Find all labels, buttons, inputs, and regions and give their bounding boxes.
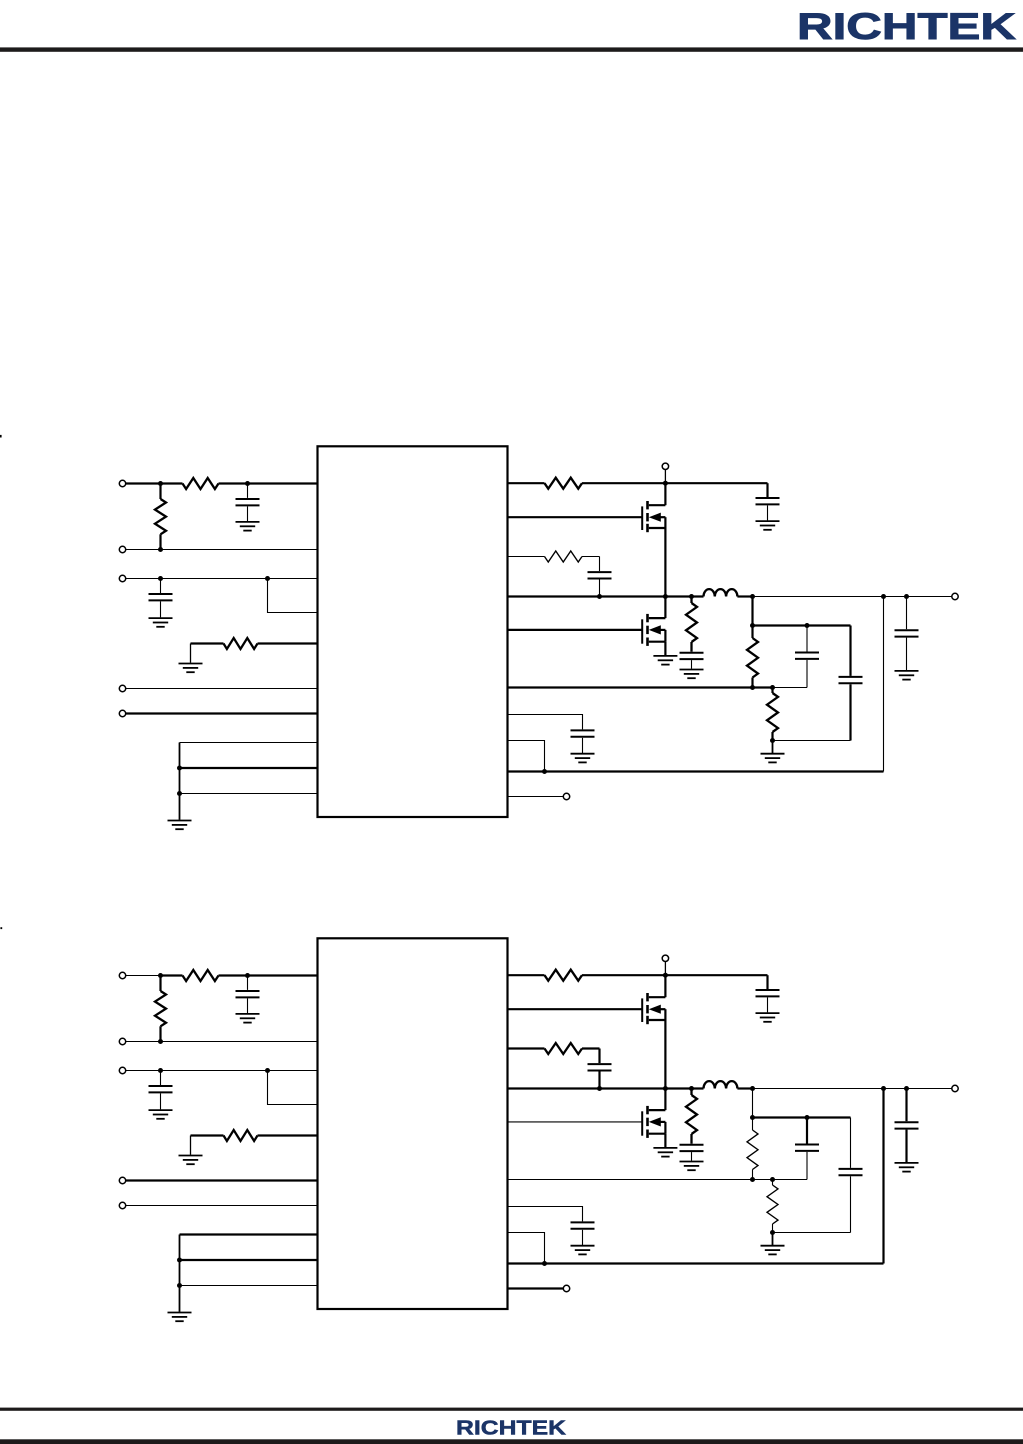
wire IC pin to sense line — [508, 1233, 545, 1264]
inductor L21 — [704, 1081, 738, 1088]
resistor R12 divider lower — [159, 484, 161, 500]
wire Q1A source to SW node — [664, 528, 666, 597]
wire Q1B drain vertical — [664, 597, 666, 619]
capacitor C14 bootstrap — [588, 572, 612, 578]
capacitor C28 output — [895, 1122, 919, 1128]
wire BOOT pin via resistor R25 — [508, 1047, 545, 1049]
wire terminal 3 to IC pin — [126, 1070, 318, 1072]
transistor Q2B low-side N-MOSFET — [642, 1106, 665, 1138]
capacitor C19 soft-start — [571, 730, 595, 736]
ground below R13 — [179, 664, 203, 673]
capacitor C23 input bulk — [756, 990, 780, 996]
wire IC pin row C lower left — [180, 793, 318, 795]
wire SW node from IC to inductor — [508, 595, 704, 597]
wire VIN2 through input filter resistor — [161, 974, 183, 976]
wire inductor to output node — [737, 595, 752, 597]
wire C21 to ground — [247, 998, 249, 1013]
wire R18 bottom to C17 — [773, 740, 851, 742]
node junction divider-pin2 — [158, 547, 163, 552]
wire VOUT sense vertical — [883, 597, 885, 772]
wire terminal 5 to IC pin — [126, 1205, 318, 1207]
resistor R21 input filter — [183, 970, 219, 981]
wire inductor to output node — [737, 1087, 752, 1089]
wire C25 to ground — [691, 1152, 693, 1161]
ground below C23 — [756, 1013, 780, 1022]
node FB junction R28 — [770, 1177, 775, 1182]
node R18 bottom junction — [770, 738, 775, 743]
ground below C13 — [756, 521, 780, 530]
wire LGATE drive to Q1B — [508, 629, 643, 631]
node junction VIN1-cap — [245, 481, 250, 486]
resistor R14 supply — [545, 478, 583, 489]
wire R28 to ground — [772, 1233, 774, 1246]
ground below C15 — [680, 670, 704, 679]
ground below C12 — [149, 618, 173, 627]
wire to capacitor C12 — [160, 579, 162, 594]
wire rail terminal stub — [664, 470, 666, 484]
wire to capacitor C22 — [160, 1071, 162, 1086]
node VIN1 rail terminal — [662, 463, 668, 469]
wire Q2B source to ground — [664, 1134, 666, 1148]
node junction VIN2-divider — [158, 973, 163, 978]
node junction row B — [177, 1258, 182, 1263]
wire UGATE drive to Q2A — [508, 1008, 643, 1010]
capacitor C13 input bulk — [756, 498, 780, 504]
node terminal 2 circuit 1 — [119, 546, 125, 552]
node terminal 5 circuit 2 — [119, 1202, 125, 1208]
node FB junction R18 — [770, 685, 775, 690]
node VOUT cap junction — [904, 594, 909, 599]
node output junction at inductor — [750, 1086, 755, 1091]
wire C16 to FB line — [806, 660, 808, 688]
wire FB line IC to divider — [508, 1179, 808, 1181]
wire Q1B source to ground — [664, 642, 666, 656]
resistor R18 feedback lower — [771, 688, 773, 694]
resistor R23 to ground — [191, 1134, 224, 1136]
wire C28 to ground — [905, 1130, 907, 1163]
node VOUT1 output terminal — [952, 593, 958, 599]
ground below C21 — [236, 1014, 260, 1023]
ground below C25 — [680, 1162, 704, 1171]
wire branch to IC pin 4 — [268, 579, 318, 613]
wire branch to IC pin 4 — [268, 1071, 318, 1105]
wire PGOOD pin to terminal — [508, 1287, 564, 1289]
wire R13 to ground — [190, 644, 192, 663]
resistor R11 input filter — [183, 478, 219, 489]
ground below C29 — [571, 1246, 595, 1255]
wire R23 to ground — [190, 1136, 192, 1155]
node FB junction R27 — [750, 1177, 755, 1182]
node SW-boot junction — [597, 1086, 602, 1091]
resistor R13 to ground — [191, 642, 224, 644]
ground signal gnd circuit 2 — [168, 1313, 192, 1322]
wire C26 to FB line — [806, 1152, 808, 1180]
wire IC pin row B lower left — [180, 767, 318, 769]
resistor R28 feedback lower — [772, 1180, 774, 1186]
node terminal 3 circuit 1 — [119, 575, 125, 581]
transistor Q1A high-side N-MOSFET — [642, 501, 665, 532]
wire C24 to SW — [598, 1071, 600, 1088]
wire Q1A drain vertical — [664, 483, 666, 505]
node terminal 4 circuit 2 — [119, 1177, 125, 1183]
ground below C28 — [895, 1163, 919, 1172]
node sense line junction — [542, 1261, 547, 1266]
ground below R18 — [761, 754, 785, 763]
op-amp U1 buck controller IC — [318, 446, 508, 817]
wire VOUT sense vertical — [882, 1089, 884, 1264]
wire C29 to ground — [582, 1230, 584, 1245]
wire terminal 2 to IC pin — [126, 1041, 318, 1043]
ground below Q2B — [653, 1148, 677, 1157]
wire rail to capacitor C23 — [766, 975, 768, 989]
wire output node down to divider — [752, 1089, 754, 1118]
node divider top junction — [750, 623, 755, 628]
wire VOUT sense return to IC — [508, 770, 884, 772]
wire C27 down to R28 bottom — [850, 1176, 852, 1232]
node SW-snubber junction — [689, 594, 694, 599]
wire IC pin row B lower left — [180, 1259, 318, 1261]
capacitor C27 compensation — [839, 1169, 863, 1175]
node terminal 4 circuit 1 — [119, 685, 125, 691]
wire divider top rail — [753, 1116, 851, 1118]
node terminal 3 circuit 2 — [119, 1067, 125, 1073]
ground below C18 — [895, 671, 919, 680]
node junction branch pin4 — [265, 576, 270, 581]
capacitor C22 — [149, 1086, 173, 1092]
wire R28 bottom to C27 — [773, 1232, 851, 1234]
wire divider rail to capacitor C27 — [850, 1118, 852, 1168]
wire R18 to ground — [772, 741, 774, 754]
ground below R23 — [179, 1156, 203, 1165]
node R28 bottom junction — [770, 1230, 775, 1235]
wire divider top rail — [753, 624, 851, 626]
wire IC pin to capacitor C19 — [508, 715, 583, 730]
wire IC pin row C lower left — [180, 1285, 318, 1287]
node SW-snubber junction — [689, 1086, 694, 1091]
wire terminal 4 to IC pin — [126, 1179, 318, 1181]
node VIN2 rail terminal — [662, 955, 668, 961]
wire Q2A source to SW node — [664, 1020, 666, 1089]
wire output node to VOUT terminal — [753, 596, 952, 598]
wire Q2B drain vertical — [664, 1089, 666, 1111]
wire BOOT pin via resistor R15 — [508, 556, 545, 558]
resistor R26 snubber — [690, 1089, 692, 1096]
capacitor C17 compensation — [839, 677, 863, 683]
capacitor C11 VCC decoupling — [236, 499, 260, 505]
wire terminal 2 to IC pin — [126, 549, 318, 551]
resistor R17 feedback upper — [751, 626, 753, 639]
capacitor C25 snubber — [680, 1145, 704, 1151]
wire VIN1 through input filter resistor — [161, 482, 183, 484]
wire to boot capacitor C14 — [599, 557, 601, 572]
wire C22 to ground — [160, 1093, 162, 1109]
node junction row C — [177, 1283, 182, 1288]
capacitor C21 VCC decoupling — [236, 991, 260, 997]
node VOUT sense junction — [881, 1086, 886, 1091]
node SW-FET junction — [663, 594, 668, 599]
node VIN1 input terminal — [119, 480, 125, 486]
wire C23 to ground — [767, 997, 769, 1012]
capacitor C12 — [149, 594, 173, 600]
node VOUT sense junction — [881, 594, 886, 599]
node terminal 5 circuit 1 — [119, 710, 125, 716]
ground below Q1B — [653, 656, 677, 665]
wire output node down to divider — [751, 597, 753, 626]
wire C17 down to R18 bottom — [849, 684, 851, 740]
capacitor C26 feedforward — [795, 1145, 819, 1151]
wire rail terminal stub — [664, 962, 666, 976]
transistor Q2A high-side N-MOSFET — [642, 993, 665, 1024]
wire vertical to signal ground — [179, 1235, 181, 1312]
wire vertical to signal ground — [179, 743, 181, 820]
node FB junction R17 — [750, 685, 755, 690]
wire VOUT to capacitor C28 — [905, 1089, 907, 1122]
node junction to C26 — [805, 1115, 810, 1120]
node PGOOD2 terminal — [563, 1285, 569, 1291]
node VOUT2 output terminal — [952, 1085, 958, 1091]
node VOUT cap junction — [904, 1086, 909, 1091]
wire IC pin to capacitor C29 — [508, 1207, 583, 1222]
ground below C11 — [236, 522, 260, 531]
resistor R27 feedback upper — [752, 1118, 754, 1131]
wire terminal 4 to IC pin — [126, 688, 318, 690]
node junction cap C12 — [158, 576, 163, 581]
node divider top junction — [750, 1115, 755, 1120]
wire IC pin row A lower left — [180, 1233, 318, 1235]
node output junction at inductor — [750, 594, 755, 599]
capacitor C29 soft-start — [571, 1222, 595, 1228]
resistor R16 snubber — [690, 597, 692, 604]
wire C15 to ground — [691, 660, 693, 669]
node sense line junction — [542, 769, 547, 774]
wire C12 to ground — [160, 601, 162, 617]
wire C13 to ground — [767, 505, 769, 520]
wire VIN2 terminal to divider tap — [126, 975, 161, 977]
wire FB line IC to divider — [508, 686, 773, 688]
wire Q2A drain vertical — [664, 975, 666, 997]
op-amp U2 buck controller IC — [318, 938, 508, 1309]
wire LGATE drive to Q2B — [508, 1121, 643, 1123]
node junction VIN1-divider — [158, 481, 163, 486]
wire terminal 5 to IC pin — [126, 712, 318, 714]
wire C11 to ground — [247, 506, 249, 521]
wire to capacitor C26 — [806, 1118, 808, 1144]
node PGOOD1 terminal — [563, 793, 569, 799]
wire to boot capacitor C24 — [598, 1049, 600, 1064]
wire IC pin row A lower left — [180, 742, 318, 744]
node junction VIN rail / Q2A drain — [663, 973, 668, 978]
wire VCC supply rail via resistor R24 — [508, 974, 545, 976]
ground below R28 — [761, 1246, 785, 1255]
resistor R24 supply — [545, 970, 583, 981]
svg-text:RICHTEK: RICHTEK — [797, 6, 1016, 47]
node terminal 2 circuit 2 — [119, 1038, 125, 1044]
ground signal gnd circuit 1 — [168, 821, 192, 830]
node junction row B — [177, 766, 182, 771]
resistor R22 divider lower — [159, 976, 161, 992]
wire VCC supply rail via resistor R14 — [508, 482, 545, 484]
wire C14 to SW — [599, 579, 601, 596]
node junction cap C22 — [158, 1068, 163, 1073]
wire VOUT sense return to IC — [508, 1262, 884, 1264]
node SW-boot junction — [597, 594, 602, 599]
inductor L11 — [704, 589, 738, 596]
wire VOUT to capacitor C18 — [906, 597, 908, 630]
node VIN2 input terminal — [119, 972, 125, 978]
ground below C19 — [571, 754, 595, 763]
node junction VIN rail / Q1A drain — [663, 481, 668, 486]
wire to capacitor C21 — [247, 976, 249, 990]
wire to capacitor C16 — [806, 626, 808, 652]
ground below C22 — [149, 1110, 173, 1119]
node junction VIN2-cap — [245, 973, 250, 978]
wire rail to capacitor C13 — [766, 483, 768, 497]
node junction divider-pin2 — [158, 1039, 163, 1044]
wire terminal 3 to IC pin — [126, 578, 318, 580]
node junction row C — [177, 791, 182, 796]
wire VIN1 terminal to divider tap — [126, 482, 161, 484]
transistor Q1B low-side N-MOSFET — [642, 614, 665, 646]
wire C19 to ground — [582, 738, 584, 753]
capacitor C24 bootstrap — [588, 1064, 612, 1070]
wire IC pin to sense line — [508, 741, 545, 772]
wire SW node from IC to inductor — [508, 1087, 704, 1089]
svg-text:RICHTEK: RICHTEK — [456, 1416, 566, 1439]
wire UGATE drive to Q1A — [508, 516, 643, 518]
node junction to C16 — [805, 623, 810, 628]
node junction branch pin4 — [265, 1068, 270, 1073]
wire to capacitor C11 — [247, 484, 249, 498]
wire PGOOD pin to terminal — [508, 796, 564, 798]
capacitor C18 output — [895, 630, 919, 636]
capacitor C16 feedforward — [795, 653, 819, 659]
wire output node to VOUT terminal — [753, 1088, 952, 1090]
wire divider rail to capacitor C17 — [849, 626, 851, 676]
node SW-FET junction — [663, 1086, 668, 1091]
capacitor C15 snubber — [680, 653, 704, 659]
wire C18 to ground — [906, 638, 908, 671]
